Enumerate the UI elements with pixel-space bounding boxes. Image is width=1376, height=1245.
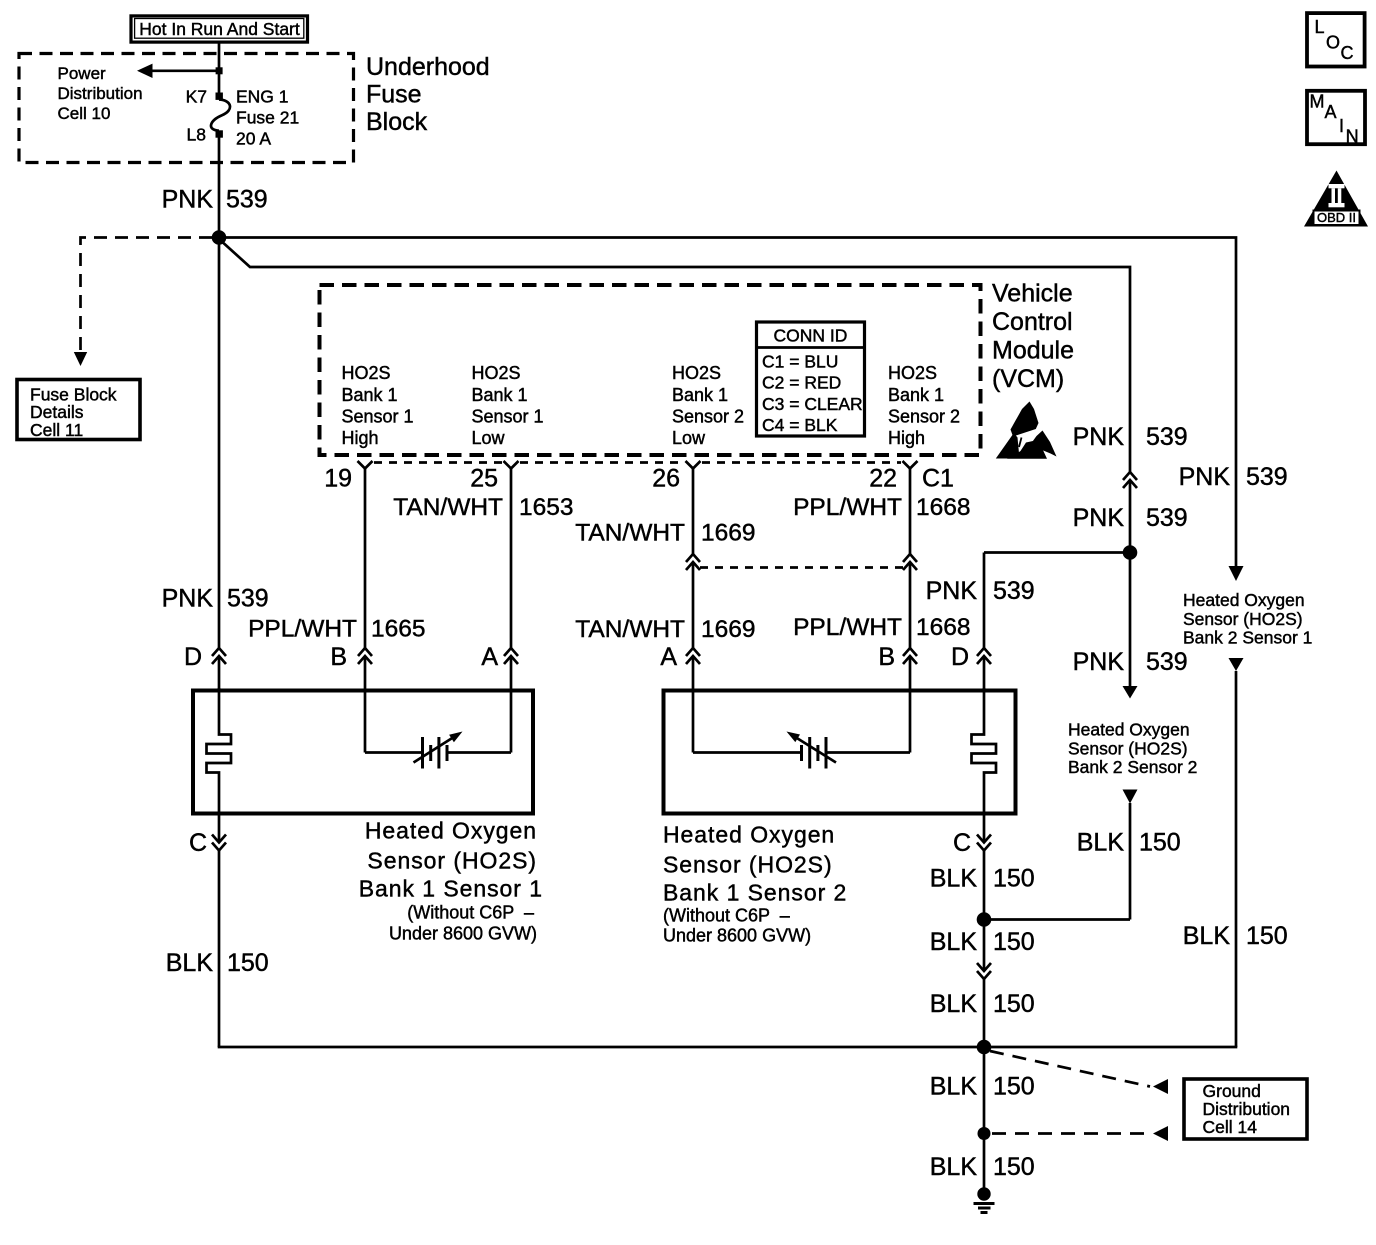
svg-text:ENG 1: ENG 1	[236, 86, 289, 106]
svg-text:Heated Oxygen: Heated Oxygen	[663, 821, 835, 847]
OBD II symbol	[1304, 171, 1368, 227]
ESD symbol	[996, 402, 1057, 459]
svg-text:C3 = CLEAR: C3 = CLEAR	[762, 394, 863, 414]
heater element sensor 1	[207, 688, 232, 815]
svg-text:C: C	[1341, 43, 1354, 63]
svg-text:22: 22	[869, 465, 897, 493]
svg-text:Control: Control	[992, 308, 1073, 336]
arrow to B2S1	[1229, 566, 1244, 581]
svg-text:B: B	[330, 643, 347, 671]
svg-text:TAN/WHT: TAN/WHT	[393, 494, 503, 521]
svg-text:D: D	[951, 643, 969, 671]
dashed reference to Ground Distribution lower	[992, 1132, 1149, 1135]
svg-text:A: A	[660, 643, 677, 671]
inline connector chevrons x1130	[1123, 472, 1137, 488]
wire BLK 150 below splice	[983, 920, 986, 972]
wire from Hot In Run to fuse	[218, 42, 221, 94]
connector B chevrons	[358, 648, 372, 664]
reference box Ground Distribution Cell 14	[1184, 1079, 1307, 1139]
LOC symbol	[1307, 13, 1365, 66]
inline connector chevrons pin26 wire	[686, 554, 700, 570]
svg-text:Heated Oxygen: Heated Oxygen	[1183, 590, 1305, 610]
svg-text:Sensor (HO2S): Sensor (HO2S)	[663, 851, 833, 877]
svg-text:(Without C6P –: (Without C6P –	[663, 906, 790, 926]
wire PPL/WHT 1668 lower	[909, 562, 912, 648]
ground splice node	[977, 1040, 992, 1055]
wire pin25 TAN/WHT 1653	[510, 469, 513, 649]
fuse F21 ENG 1 20A	[211, 100, 230, 131]
svg-text:Distribution: Distribution	[1203, 1099, 1291, 1119]
pin label HO2S Bank 1 Sensor 2 Low	[672, 363, 744, 448]
label Heated Oxygen Sensor Bank 1 Sensor 2	[663, 821, 847, 945]
svg-text:Heated Oxygen: Heated Oxygen	[365, 817, 537, 843]
label Power Distribution Cell 10	[58, 64, 143, 123]
svg-text:C4 = BLK: C4 = BLK	[762, 415, 838, 435]
svg-text:BLK: BLK	[930, 928, 978, 956]
arrow from B2S2	[1123, 790, 1138, 804]
wire branch to D pin	[984, 551, 1130, 554]
HO2S Bank1 Sensor1 box	[193, 691, 533, 814]
svg-text:Heated Oxygen: Heated Oxygen	[1068, 719, 1190, 739]
svg-text:CONN ID: CONN ID	[774, 325, 848, 345]
svg-text:Under 8600 GVW): Under 8600 GVW)	[663, 926, 811, 946]
svg-text:1669: 1669	[701, 616, 756, 643]
svg-text:150: 150	[993, 865, 1035, 893]
ground symbol G103	[974, 1187, 995, 1212]
svg-text:High: High	[888, 428, 925, 448]
svg-text:Sensor (HO2S): Sensor (HO2S)	[1183, 609, 1303, 629]
svg-text:26: 26	[652, 465, 680, 493]
svg-text:PNK: PNK	[1073, 423, 1125, 451]
svg-text:Cell 10: Cell 10	[58, 104, 111, 123]
splice node	[977, 912, 992, 927]
svg-text:Cell 14: Cell 14	[1203, 1117, 1258, 1137]
title box Hot In Run And Start	[131, 16, 308, 42]
svg-text:539: 539	[1146, 648, 1188, 676]
svg-text:HO2S: HO2S	[342, 363, 391, 383]
wire arrow to Power Distribution	[137, 64, 223, 78]
wire branch to B2S2 heater return	[984, 918, 1130, 921]
svg-text:A: A	[1325, 102, 1337, 122]
svg-text:539: 539	[227, 584, 269, 612]
pin label HO2S Bank 1 Sensor 2 High	[888, 363, 960, 448]
svg-text:Bank 1 Sensor 1: Bank 1 Sensor 1	[359, 875, 543, 901]
svg-text:L: L	[1315, 17, 1325, 37]
svg-text:K7: K7	[186, 86, 207, 106]
svg-text:C1 = BLU: C1 = BLU	[762, 351, 838, 371]
svg-text:TAN/WHT: TAN/WHT	[575, 616, 685, 643]
svg-text:1653: 1653	[519, 494, 574, 521]
svg-text:Module: Module	[992, 337, 1074, 365]
sensing element sensor 1	[365, 732, 511, 769]
svg-text:Block: Block	[366, 108, 428, 136]
wires into sensor 2 box	[692, 656, 695, 753]
svg-text:I: I	[1339, 116, 1344, 136]
svg-text:High: High	[342, 428, 379, 448]
wire BLK 150 to ground splice	[983, 979, 986, 1047]
svg-text:Bank 2 Sensor 2: Bank 2 Sensor 2	[1068, 757, 1197, 777]
svg-text:1665: 1665	[371, 615, 426, 642]
svg-text:C: C	[189, 829, 207, 857]
connector C chevrons down	[212, 835, 226, 851]
svg-text:PNK: PNK	[1179, 463, 1231, 491]
connector A2 chevrons	[686, 648, 700, 664]
dashed reference to Ground Distribution upper	[990, 1051, 1150, 1087]
svg-text:Details: Details	[30, 402, 84, 422]
svg-text:(VCM): (VCM)	[992, 365, 1064, 393]
connector D2 chevrons	[977, 648, 991, 664]
svg-text:PPL/WHT: PPL/WHT	[793, 494, 902, 521]
wire PNK 539 second run to mid right	[219, 239, 1130, 472]
dashed connector face line	[374, 461, 502, 464]
svg-text:N: N	[1346, 126, 1359, 146]
bottom wire run	[218, 1046, 1238, 1049]
inline connector chevrons pin22 wire	[903, 554, 917, 570]
svg-text:Under 8600 GVW): Under 8600 GVW)	[389, 924, 537, 944]
svg-text:B: B	[878, 643, 895, 671]
svg-text:Vehicle: Vehicle	[992, 280, 1073, 308]
svg-text:Bank 2 Sensor 1: Bank 2 Sensor 1	[1183, 627, 1312, 647]
pin 26 connector	[686, 461, 701, 469]
svg-text:1668: 1668	[916, 614, 971, 641]
svg-text:HO2S: HO2S	[888, 363, 937, 383]
svg-text:PNK: PNK	[1073, 504, 1125, 532]
wire TAN/WHT 1669 lower	[692, 562, 695, 648]
wire pin26 TAN/WHT 1669 upper	[692, 469, 695, 555]
pin 19 connector	[358, 461, 373, 469]
svg-text:Fuse: Fuse	[366, 81, 422, 109]
svg-text:BLK: BLK	[930, 1073, 978, 1101]
svg-text:19: 19	[324, 465, 352, 493]
dashed inline connector link	[700, 566, 903, 569]
svg-text:C1: C1	[922, 465, 954, 493]
svg-text:BLK: BLK	[930, 990, 978, 1018]
svg-text:BLK: BLK	[1077, 829, 1125, 857]
connector D left chevrons	[212, 648, 226, 664]
svg-text:539: 539	[1146, 504, 1188, 532]
HO2S Bank1 Sensor2 box	[664, 691, 1016, 814]
wires into sensor 1 box	[218, 656, 221, 690]
svg-text:Bank 1 Sensor 2: Bank 1 Sensor 2	[663, 879, 847, 905]
reference box Fuse Block Details Cell 11	[17, 380, 140, 440]
svg-text:BLK: BLK	[930, 1153, 978, 1181]
svg-text:Bank 1: Bank 1	[672, 385, 728, 405]
svg-text:Ground: Ground	[1203, 1081, 1261, 1101]
underhood fuse block dashed box	[19, 54, 354, 163]
dashed reference to Fuse Block Details	[81, 238, 213, 352]
svg-text:Cell 11: Cell 11	[30, 420, 83, 440]
pin 22 connector	[903, 461, 918, 469]
svg-text:A: A	[481, 643, 498, 671]
connector C2 chevrons down	[977, 835, 991, 851]
svg-text:BLK: BLK	[930, 865, 978, 893]
svg-text:Low: Low	[672, 428, 706, 448]
svg-text:BLK: BLK	[166, 949, 214, 977]
wire PNK 539 to sensor D	[983, 553, 986, 649]
connector B2 chevrons	[903, 648, 917, 664]
svg-text:L8: L8	[187, 124, 206, 144]
svg-text:Underhood: Underhood	[366, 53, 490, 81]
wire below sensor2 C	[983, 814, 986, 843]
wire below sensor1 C	[218, 814, 221, 843]
svg-text:539: 539	[226, 186, 268, 214]
wire PNK 539 down from fuse block	[218, 138, 221, 238]
sensing element sensor 2	[693, 732, 910, 769]
svg-text:C2 = RED: C2 = RED	[762, 373, 841, 393]
svg-text:Sensor (HO2S): Sensor (HO2S)	[367, 847, 537, 873]
wire pin19 PPL/WHT 1665	[364, 469, 367, 649]
svg-text:150: 150	[993, 1073, 1035, 1101]
svg-text:PNK: PNK	[1073, 648, 1125, 676]
junction node splice right	[1123, 545, 1138, 560]
wire BLK 150 to splice	[983, 851, 986, 920]
VCM dashed box	[320, 285, 981, 455]
svg-text:Bank 1: Bank 1	[342, 385, 398, 405]
connector A chevrons	[504, 648, 518, 664]
svg-text:1669: 1669	[701, 519, 756, 546]
pin 25 connector	[504, 461, 519, 469]
svg-text:M: M	[1310, 92, 1325, 112]
svg-text:O: O	[1326, 33, 1340, 53]
svg-text:PPL/WHT: PPL/WHT	[248, 615, 357, 642]
node K7	[216, 93, 223, 100]
wire pin22 PPL/WHT 1668 upper	[909, 469, 912, 555]
svg-text:PPL/WHT: PPL/WHT	[793, 614, 902, 641]
label Heated Oxygen Sensor Bank 2 Sensor 2	[1068, 719, 1197, 777]
svg-text:539: 539	[1146, 423, 1188, 451]
label Underhood Fuse Block	[366, 53, 490, 136]
MAIN symbol	[1307, 91, 1365, 147]
svg-text:Sensor 1: Sensor 1	[472, 407, 544, 427]
pin label HO2S Bank 1 Sensor 1 Low	[472, 363, 544, 448]
svg-text:PNK: PNK	[926, 577, 978, 605]
wire PNK 539 left drop	[218, 239, 221, 648]
wire BLK 150 left	[218, 851, 221, 1048]
inline connector chevrons down	[977, 963, 991, 979]
svg-text:Sensor (HO2S): Sensor (HO2S)	[1068, 738, 1188, 758]
svg-text:150: 150	[227, 949, 269, 977]
pin label HO2S Bank 1 Sensor 1 High	[342, 363, 414, 448]
label Vehicle Control Module (VCM)	[992, 280, 1074, 394]
svg-text:HO2S: HO2S	[672, 363, 721, 383]
svg-text:20 A: 20 A	[236, 128, 271, 148]
svg-text:Bank 1: Bank 1	[888, 385, 944, 405]
svg-text:TAN/WHT: TAN/WHT	[575, 519, 685, 546]
label Heated Oxygen Sensor Bank 2 Sensor 1	[1183, 590, 1312, 648]
svg-text:150: 150	[1139, 829, 1181, 857]
svg-text:Sensor 2: Sensor 2	[672, 407, 744, 427]
svg-text:PNK: PNK	[162, 584, 214, 612]
arrow from B2S1	[1229, 658, 1244, 671]
svg-text:HO2S: HO2S	[472, 363, 521, 383]
svg-text:Sensor 1: Sensor 1	[342, 407, 414, 427]
svg-text:150: 150	[1246, 922, 1288, 950]
svg-text:150: 150	[993, 990, 1035, 1018]
CONN ID table	[757, 322, 865, 436]
arrow to B2S2	[1123, 686, 1138, 699]
svg-text:150: 150	[993, 1153, 1035, 1181]
svg-text:25: 25	[470, 465, 498, 493]
svg-text:Hot In Run And Start: Hot In Run And Start	[139, 19, 300, 39]
wire BLK 150 below ground splice	[983, 1047, 986, 1193]
svg-text:150: 150	[993, 928, 1035, 956]
svg-text:BLK: BLK	[1183, 922, 1231, 950]
splice node 2	[978, 1127, 991, 1140]
svg-text:1668: 1668	[916, 494, 971, 521]
svg-text:OBD II: OBD II	[1317, 210, 1356, 225]
svg-text:Distribution: Distribution	[58, 84, 143, 103]
wire PNK 539 top run to far right	[219, 238, 1236, 567]
svg-text:Low: Low	[472, 428, 506, 448]
svg-text:Sensor 2: Sensor 2	[888, 407, 960, 427]
node L8	[216, 130, 223, 137]
svg-text:539: 539	[993, 577, 1035, 605]
svg-text:Fuse 21: Fuse 21	[236, 107, 299, 127]
junction node splice	[212, 230, 227, 245]
svg-text:Bank 1: Bank 1	[472, 385, 528, 405]
heater element sensor 2	[972, 688, 997, 815]
svg-text:Power: Power	[58, 64, 107, 83]
label Heated Oxygen Sensor Bank 1 Sensor 1	[359, 817, 543, 943]
svg-text:(Without C6P –: (Without C6P –	[407, 903, 534, 923]
svg-text:C: C	[953, 829, 971, 857]
svg-text:D: D	[184, 643, 202, 671]
svg-text:PNK: PNK	[162, 186, 214, 214]
wire BLK 150 far right	[1235, 671, 1238, 1047]
svg-text:539: 539	[1246, 463, 1288, 491]
